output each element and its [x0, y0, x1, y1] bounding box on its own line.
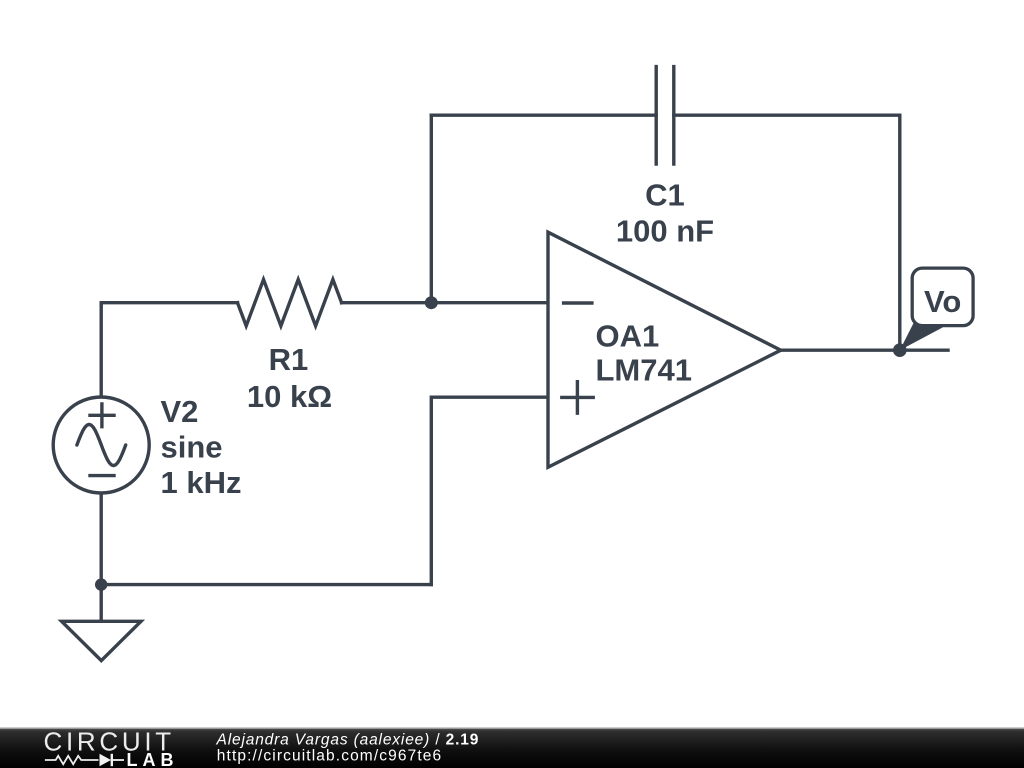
logo resistor zigzag: [45, 756, 99, 764]
svg-text:C1: C1: [645, 178, 685, 213]
wire feedback top right: [674, 113, 900, 116]
svg-text:R1: R1: [269, 342, 309, 377]
voltage source V2 plus sign: [90, 404, 114, 427]
wire bottom return: [101, 583, 431, 586]
capacitor C1: [656, 67, 674, 164]
wire source-top to resistor: [101, 303, 237, 397]
svg-text:10 kΩ: 10 kΩ: [247, 379, 332, 414]
wire feedback left vertical: [430, 115, 433, 303]
node dot output: [893, 343, 907, 357]
svg-text:sine: sine: [161, 430, 223, 465]
wire feedback right vertical: [898, 115, 901, 350]
ground: [62, 621, 141, 660]
wire to ground: [99, 585, 102, 622]
svg-text:1 kHz: 1 kHz: [161, 465, 242, 500]
node Vo flag box: [912, 268, 973, 326]
svg-text:OA1: OA1: [596, 319, 660, 354]
op-amp inverting input minus sign: [564, 301, 592, 304]
wire non-inverting input: [431, 397, 548, 584]
svg-text:100 nF: 100 nF: [616, 213, 714, 248]
wire output: [781, 349, 948, 352]
op-amp OA1 triangle: [548, 232, 781, 467]
resistor R1: [238, 280, 342, 326]
node dot junction resistor/feedback: [425, 296, 438, 309]
wire source bottom: [99, 493, 102, 585]
voltage source V2 sine: [77, 424, 126, 465]
svg-text:V2: V2: [161, 394, 199, 429]
voltage source V2 minus sign: [90, 474, 114, 477]
svg-text:Vo: Vo: [924, 284, 961, 319]
wire resistor to inverting input: [342, 301, 548, 304]
svg-text:Alejandra Vargas (aalexiee) /: Alejandra Vargas (aalexiee) / 2.19: [216, 732, 480, 749]
node dot ground junction: [95, 578, 107, 590]
op-amp non-inverting input plus sign: [562, 382, 593, 414]
svg-text:LM741: LM741: [596, 353, 692, 388]
logo diode: [100, 754, 112, 766]
node Vo flag pointer: [900, 322, 943, 350]
svg-text:LAB: LAB: [127, 750, 179, 768]
wire feedback top left: [431, 113, 656, 116]
svg-text:http://circuitlab.com/c967te6: http://circuitlab.com/c967te6: [217, 748, 442, 765]
voltage source V2 circle: [53, 397, 149, 493]
